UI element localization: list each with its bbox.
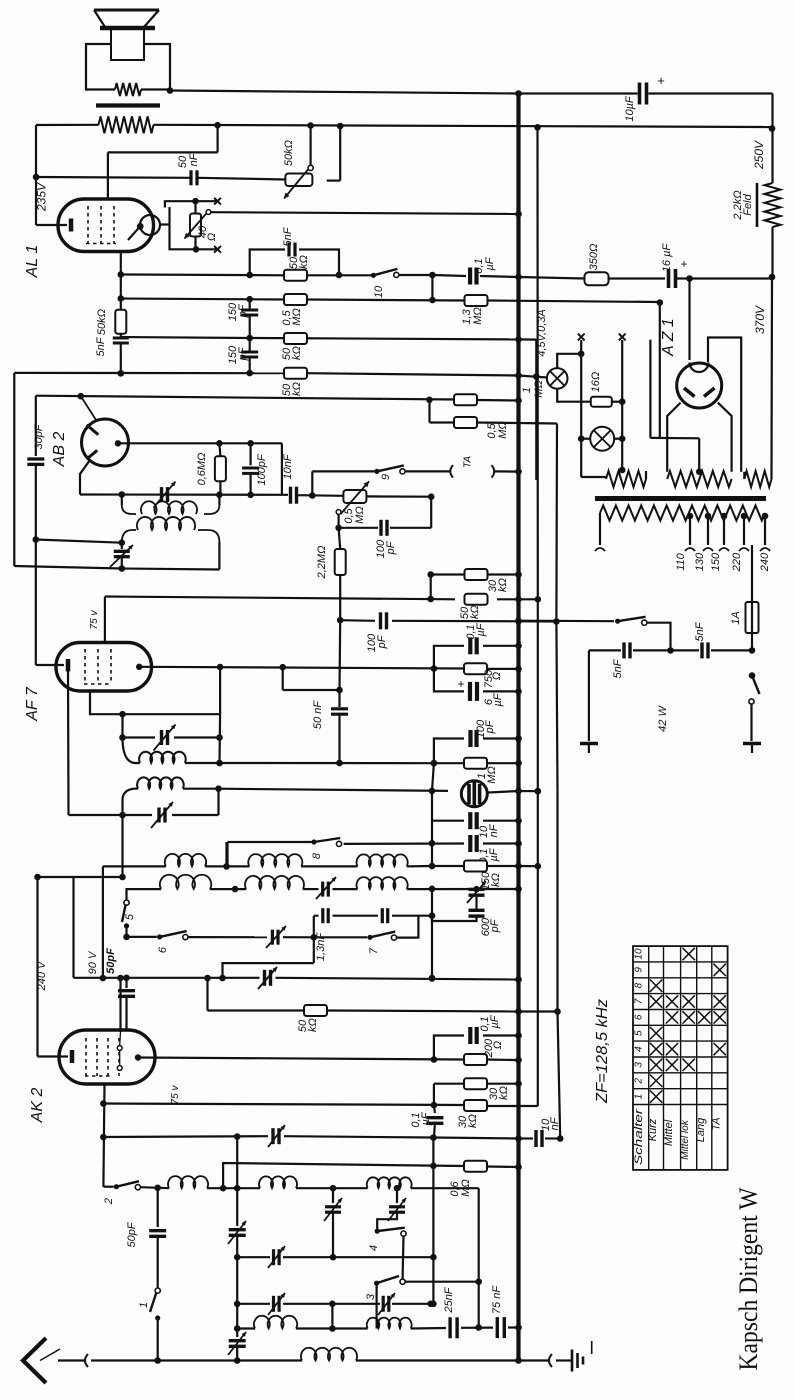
resistor 0.6M AB2 [215,456,226,481]
trimmer 1.3nF a [321,882,324,897]
svg-text:ZF=128,5 kHz: ZF=128,5 kHz [594,999,611,1104]
svg-text:250V: 250V [752,140,766,170]
capacitor 0.1uF y1121 [434,1105,435,1113]
svg-text:AK 2: AK 2 [29,1088,46,1124]
resistor 2.2M [339,528,341,549]
svg-text:kΩ: kΩ [291,346,303,360]
tube AL1 cathode [36,224,67,226]
coil IF1 secondary [122,530,136,543]
svg-text:Schalter: Schalter [633,1107,645,1165]
wire X1 vertical [580,340,582,439]
tube AB2 grid lead [81,396,97,421]
svg-text:pF: pF [376,634,388,649]
wire AF7 kbox [90,667,220,714]
wire row C y1328 [237,1327,255,1329]
capacitor 75nF [496,1317,499,1338]
wire AB2 anode corner [281,443,283,494]
switch 6 [157,934,162,939]
svg-text:50 nF: 50 nF [312,700,324,729]
wire switch1 row [519,620,615,623]
wire 100pF row2 y620 [340,619,375,622]
wiper 40ohm [206,210,211,215]
svg-text:1A: 1A [730,611,742,624]
terminal X1 [578,334,585,341]
wire x340 mid [338,620,341,690]
wire sw4 drop [402,1236,405,1279]
switch 1 mains [615,619,620,624]
wire TA to bus [405,470,450,472]
svg-text:5nF: 5nF [694,621,706,641]
wire AZ1 ct riser [659,303,661,439]
wire 100pF row3 [434,739,464,764]
svg-text:kΩ: kΩ [298,255,310,269]
corner tick [591,1341,593,1354]
wire x434 to row791 [432,763,434,791]
svg-text:pF: pF [237,346,249,361]
svg-text:MΩ: MΩ [497,421,509,439]
wire 0.1uF row y843 [344,842,464,845]
svg-text:1: 1 [138,1302,150,1308]
svg-text:kΩ: kΩ [307,1018,319,1032]
svg-text:8: 8 [634,982,645,988]
svg-text:42 W: 42 W [657,705,669,732]
wire 1.3nF b row [314,915,319,917]
wire AB2 top row [36,396,455,400]
svg-text:235V: 235V [35,182,49,212]
capacitor 5nF loop [287,243,290,257]
wire 1M-0.5M link [428,400,430,423]
svg-text:0,6MΩ: 0,6MΩ [196,453,208,486]
wire row 574 [431,573,465,575]
svg-text:AF 7: AF 7 [24,686,41,722]
resistor 2.2k field coil [765,183,781,227]
switch 8 [311,839,316,844]
coil IF1 primary [121,495,123,506]
transformer core [595,496,766,501]
capacitor 150pF upper [249,299,251,309]
wire lamp2 left [581,438,590,440]
wire IF2 sec bottom [121,800,123,815]
chain x397 [396,1188,398,1203]
wire row y791 [219,789,449,791]
wire row A y1257 [237,1256,270,1258]
wire rail L1 [13,373,15,566]
trimmer IF1 secondary [121,543,123,549]
wire primary left lead [599,513,601,545]
tube AF7 grids [84,649,86,684]
wire ground link [519,1359,549,1361]
capacitor osc small [381,908,384,923]
wire fuse feed [751,545,753,562]
tube AF7 envelope [56,643,152,692]
terminal ground hook [549,1354,552,1367]
wire rail L2 top [35,396,37,456]
svg-text:AL 1: AL 1 [24,245,41,279]
wire 30k row y1084 [434,1083,464,1085]
wire sw8 left [226,842,228,866]
table switch grid [633,946,728,1170]
resistor 50k bank [304,1005,327,1016]
capacitor 5nF line1 [622,642,625,658]
wire 16uF to rail [676,277,773,279]
resistor 30k AVC [465,569,488,580]
wire anode row to bus [487,668,519,670]
svg-text:10nF: 10nF [282,453,294,479]
wire row y300 [121,299,284,300]
svg-text:kΩ: kΩ [498,1086,510,1100]
svg-text:2: 2 [634,1077,645,1084]
resistor 50k row275 [284,270,307,281]
wire 5nF row [589,649,621,651]
svg-text:150: 150 [710,552,722,571]
svg-text:240: 240 [759,552,771,572]
resistor 0.5M AB2 [454,417,477,428]
wire y877 link [38,876,123,878]
lamp pilot 1 [547,368,568,389]
wire y213 to bus [211,212,519,214]
capacitor 100pF pot [379,520,382,536]
trimmer row A [272,1249,275,1265]
svg-text:Lang: Lang [695,1117,707,1142]
wire 5nF-50k loop [250,250,285,276]
wire coil row y866 [103,865,166,867]
coil bank B2 [245,876,304,889]
wire xR top [555,424,558,622]
svg-text:5nF: 5nF [95,336,107,356]
svg-text:100pF: 100pF [256,453,268,485]
svg-text:8: 8 [311,852,323,859]
capacitor 100pF AB2 [250,443,252,465]
capacitor 10uF [638,83,642,105]
resistor 30k a [464,1078,487,1089]
wire 0.5M row [430,421,456,423]
wire AL1 anode chain [120,251,122,299]
trimmer tuning osc [263,970,266,986]
svg-text:2: 2 [103,1198,115,1205]
capacitor 0.1uF AF7 [468,637,472,654]
svg-text:MΩ: MΩ [354,506,366,524]
wire row275 to 350 [519,277,585,279]
svg-text:5nF: 5nF [612,658,624,678]
svg-text:75 v: 75 v [89,610,100,630]
wire 600pF bottom [432,916,477,921]
wire AK2 g1 drop [103,1084,104,1187]
coil antenna choke [301,1348,357,1361]
capacitor 10nF y1138 [519,1137,534,1139]
svg-text:6: 6 [634,1014,645,1020]
capacitor 50pF AK2 [125,978,127,988]
transformer heater winding 2 [744,471,771,487]
svg-text:µF: µF [475,622,487,636]
capacitor 5nF AL1 [113,337,129,340]
wire AL1 screen feed [217,125,219,152]
svg-text:90 V: 90 V [87,950,99,974]
wire right rail 250V [771,94,773,184]
capacitor 0.1uF y1035 [468,1027,472,1044]
terminal TA hooks [450,465,453,477]
svg-text:16Ω: 16Ω [590,372,602,393]
svg-text:MΩ: MΩ [291,308,303,326]
wire row y275 right [399,274,433,276]
wire 50nF row [36,176,190,179]
svg-text:3: 3 [365,1293,377,1300]
wire coil row y889 [127,889,162,900]
tube AL1 grids [87,206,89,244]
wire side-cap link [160,223,170,225]
speaker cone [94,9,159,12]
capacitor 25nF [448,1317,451,1338]
svg-text:5: 5 [124,913,136,920]
coil bank C1 [357,854,408,866]
tube AL1 side cap [140,215,160,235]
svg-text:9: 9 [634,967,645,973]
output transformer primary [99,116,154,133]
trimmer osc pad [469,888,485,891]
svg-text:kΩ: kΩ [467,1114,479,1128]
coil ant B [259,1176,297,1188]
wire x313 drop [313,916,315,963]
wire AF7 cathode chain [67,672,70,816]
capacitor 10nF AB2 [289,487,292,504]
wire x122 to 877 [121,815,123,877]
svg-text:240 V: 240 V [36,960,48,991]
wire y125 rail [36,124,99,126]
wire wiper drop [338,514,340,527]
capacitor 30pF [27,457,44,460]
wire 30k link [430,575,432,600]
svg-text:pF: pF [237,303,249,318]
vertical x537 upper [536,127,538,599]
spine x433 low [432,1138,434,1258]
resistor 40ohm [190,214,201,237]
wire row y275 [121,273,284,276]
wire AZ1 top feed [688,279,690,361]
lamp pilot 2 [590,427,614,451]
svg-text:µF: µF [484,256,496,270]
svg-text:7: 7 [634,998,645,1004]
antenna symbol [23,1338,46,1383]
capacitor 600pF [469,909,485,912]
terminal mains right [743,742,761,746]
svg-text:kΩ: kΩ [469,605,481,619]
wire 50nF drop [282,667,284,690]
coil bank C2 [357,877,408,889]
wire sw8 riser [225,842,227,866]
svg-text:nF: nF [488,823,500,837]
wire AK2 cath rail [36,877,38,1057]
svg-text:1: 1 [521,387,533,393]
resistor 750ohm [464,663,487,674]
coil bank A2 [160,875,211,889]
wire ant coil row [141,1187,170,1188]
tube AB2 anode pin [115,440,121,446]
tube AK2 envelope [59,1030,155,1084]
wire AZ1 heater hook [708,338,741,472]
transformer primary taps [687,513,694,520]
wire sw3 dot drop [376,1283,378,1328]
wire sw7 right [397,916,419,938]
svg-text:Feld: Feld [742,193,754,215]
wire row y978 [74,977,260,979]
transformer primary [600,506,765,521]
svg-text:MΩ: MΩ [533,380,545,398]
tube AF7 cathode [36,664,64,666]
svg-text:pF: pF [385,540,397,555]
trimmer IF1 primary [160,487,163,502]
tube AB2 envelope [82,419,129,466]
wire AZ1 right anode [718,403,732,472]
wire 0.1uF row [434,646,464,669]
wire x536 lamp drop [535,340,537,480]
spine x237 [236,1137,238,1226]
svg-text:25nF: 25nF [443,1286,455,1313]
svg-text:pF: pF [489,918,501,933]
chain x333 [332,1188,334,1203]
wire 16ohm right [612,401,622,403]
trimmer row B1 [272,1296,275,1312]
trimmer bank mid [271,930,274,945]
wire mains left prong [588,650,590,741]
wire x478 drop [478,1188,480,1327]
tube AK2 cathode [38,1055,69,1057]
wire 0.1uF row y1035 [434,1036,464,1060]
svg-text:Mittel: Mittel [663,1119,675,1146]
wire x340 low [338,715,340,764]
wire switch9 riser [311,471,313,495]
trimmer IF2 bottom [157,808,160,823]
svg-text:TA: TA [463,456,474,468]
wiper 0.5M [336,510,341,515]
svg-text:µF: µF [489,1014,501,1028]
tube AK2 grids [85,1038,87,1076]
switch 9 [374,469,379,474]
coil bot B [254,1316,297,1329]
node IF2 sec right [215,785,222,792]
wire right rail mid [771,227,773,277]
svg-text:50kΩ: 50kΩ [283,140,295,166]
tube AL1 envelope [58,199,154,252]
svg-text:220: 220 [731,552,743,572]
svg-text:+: + [657,73,665,88]
svg-text:50pF: 50pF [105,948,117,974]
tube AK2 anode pin [135,1054,141,1060]
trimmer IF2 top [123,736,156,738]
wire row y373 [14,372,284,375]
resistor 50k row373 [284,368,307,379]
capacitor 0.1uF y843 [468,835,472,852]
resistor 0.6M [464,1161,487,1172]
svg-text:3: 3 [634,1062,645,1068]
wire pot out row [366,495,431,498]
wire 2.2M down [339,575,341,620]
svg-text:Ω: Ω [491,672,503,680]
wire right rail low [770,277,773,472]
resistor 50k AVC [465,594,488,605]
svg-text:Mittel lok: Mittel lok [680,1119,691,1159]
coil bank A1 [165,854,206,867]
trimmer AK2 grid [271,1128,274,1144]
svg-text:5: 5 [634,1030,645,1036]
speaker voice-coil frame [111,28,144,60]
wire X2 vertical [621,340,623,470]
wire fuse to node [751,633,753,650]
svg-text:kΩ: kΩ [490,873,502,887]
coil IF2 primary [123,738,141,764]
wire grid row y597 [105,597,455,600]
wire g4 riser [119,978,121,1032]
tube AL1 anode pin [137,223,144,230]
tube AB2 cathode lead [80,460,90,495]
svg-text:kΩ: kΩ [291,382,303,396]
wire AB2 anode row [118,442,282,444]
switch 10 [371,273,376,278]
tube AZ1 envelope [677,363,722,408]
wire top rail y92 [170,91,519,94]
wire 6uF row [434,669,464,692]
coil bank B1 [248,854,302,866]
fuse 1A [746,602,759,633]
trimmer ant bot [229,1339,246,1342]
capacitor 16uF [667,269,671,288]
svg-text:4: 4 [368,1245,380,1251]
wire AB2 cathode row [80,493,288,495]
svg-text:6: 6 [157,946,169,953]
wire IF1 sec left [36,540,122,543]
resistor 50k AL1 [115,310,126,334]
potentiometer 50k volume [285,174,312,187]
wire anode load row [220,762,434,764]
svg-text:30pF: 30pF [33,423,45,449]
output transformer core [96,103,160,107]
node AL1 chain y373 [118,370,125,377]
tube AZ1 anodes [684,388,695,397]
svg-text:nF: nF [188,152,200,166]
svg-text:pF: pF [484,719,496,734]
svg-text:kΩ: kΩ [497,578,509,592]
resistor 50k row338 [284,333,307,344]
wire xR low [556,791,558,1012]
wire grid2 row y1104 [103,1104,464,1106]
wire AF7 grid riser [104,597,106,643]
wire 10nF right [297,494,343,497]
coil bot C [367,1318,412,1329]
capacitor 100pF y738 [468,730,472,747]
svg-text:+: + [680,257,687,271]
svg-text:10: 10 [634,948,645,960]
wire row B y1304 [237,1303,270,1305]
wire 350 to 16uF [609,277,666,279]
resistor 1.3M row300 [465,295,488,306]
svg-text:50kΩ: 50kΩ [96,309,108,335]
wire left rail AL1 [35,125,37,225]
speaker hum-coil loop [86,44,115,90]
svg-text:4: 4 [634,1046,645,1052]
svg-text:10µF: 10µF [624,95,636,122]
capacitor 0.1uF row275 [468,268,472,285]
node speaker-B+ [167,87,174,94]
transformer heater winding 1 [606,471,646,487]
svg-text:110: 110 [675,552,687,570]
wire x207 link [206,978,208,1011]
svg-text:MΩ: MΩ [472,307,484,325]
resistor 350ohm [585,272,609,285]
capacitor 150pF lower [249,338,251,351]
capacitor 6uF [468,682,472,701]
switch 1 band [155,1288,160,1293]
wire sw3 out [405,1281,479,1283]
vertical x537 low [537,599,539,1106]
node bus-top [515,90,522,97]
